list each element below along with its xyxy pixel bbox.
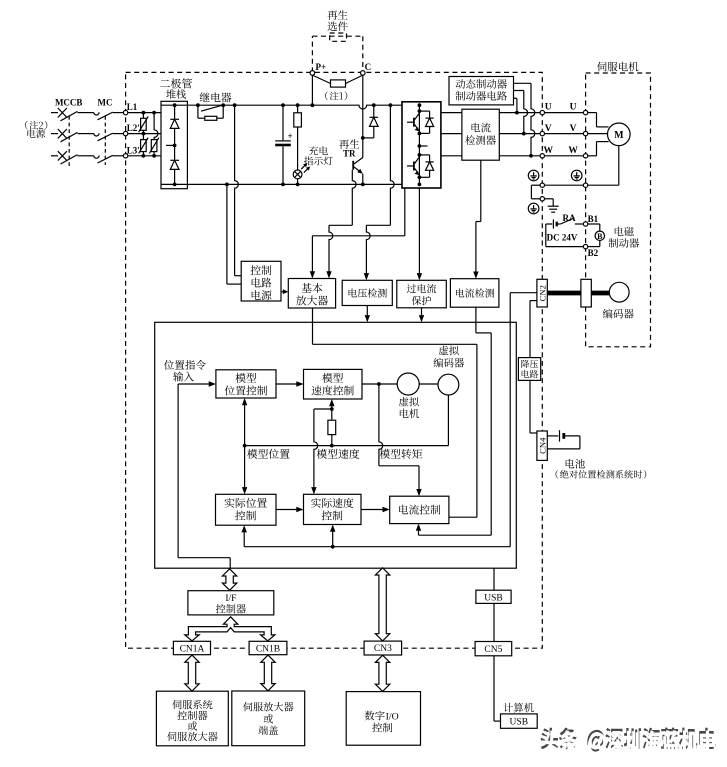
node L1-R1: [142, 111, 146, 115]
mechanical link MCCB (dashed): [68, 116, 70, 166]
connector CN1B: [249, 641, 287, 654]
wire CN5 to computer USB: [493, 656, 495, 721]
wire current detector to current detection: [480, 160, 482, 221]
node L3-R2: [142, 154, 146, 158]
diode stack internal bus top: [161, 104, 187, 106]
terminal W (motor): [583, 154, 587, 158]
arrow overcurrent protection output: [421, 308, 423, 321]
breaker MCCB pole 2: [58, 129, 67, 138]
battery BAT (absolute position): [547, 435, 558, 437]
node module leg: [418, 103, 422, 107]
node DS1 bottom: [296, 183, 300, 187]
arrow model pos to model speed: [276, 383, 302, 385]
double arrow CN1A to servo system controller: [185, 655, 199, 691]
svg-text:USB: USB: [484, 593, 502, 603]
svg-text:CN4: CN4: [537, 437, 547, 454]
label 再生选件: [327, 10, 347, 20]
module phase stub: [419, 145, 427, 147]
wire DS1 to bus N: [297, 179, 299, 185]
wire model position feedback: [447, 395, 449, 446]
wire W to terminal: [499, 155, 540, 157]
arrow voltage detection output: [366, 306, 368, 321]
svg-text:B: B: [597, 232, 603, 241]
capacitor C1 (electrolytic): [282, 105, 284, 141]
IGBT Q1 upper with diode: [418, 111, 420, 113]
svg-text:U: U: [570, 103, 577, 113]
node C1 bottom: [281, 183, 285, 187]
wire brake to U: [514, 97, 517, 99]
contactor MC pole 3: [94, 156, 99, 159]
label 充电指示灯: [309, 146, 328, 155]
wire phase U output: [441, 112, 462, 114]
svg-text:M: M: [614, 130, 624, 141]
node L3-R3: [152, 154, 156, 158]
node model speed branch: [330, 407, 334, 411]
terminal L2: [123, 131, 127, 135]
model position control 模型位置控制: [216, 370, 276, 398]
svg-text:U: U: [545, 103, 552, 113]
arrow up into model position control: [244, 400, 246, 446]
interface USB (amp): [476, 590, 511, 603]
wire MCCB-MC phase 2: [78, 133, 94, 135]
node L2-R1R2: [142, 132, 146, 136]
terminal V (amp): [540, 131, 544, 135]
wire U to terminal: [499, 112, 540, 114]
node torque tap: [377, 382, 381, 386]
current control 电流控制: [390, 496, 449, 523]
rectifier diode stack U1: [161, 101, 187, 188]
I/F controller: [188, 591, 274, 615]
terminal C: [361, 71, 366, 76]
svg-text:CN3: CN3: [374, 644, 392, 654]
wire DC bus N (bottom): [187, 183, 419, 185]
diode D2: [170, 159, 179, 161]
actual position control 实际位置控制: [216, 494, 277, 525]
svg-text:C: C: [365, 62, 372, 72]
wire model torque feedback: [379, 384, 383, 466]
label 伺服电机: [597, 62, 638, 72]
switch RA contact: [561, 218, 575, 224]
terminal U (amp): [540, 110, 544, 114]
wire control to USB: [493, 568, 495, 590]
label 编码器: [603, 309, 634, 319]
wire current control to base amplifier: [449, 516, 477, 518]
svg-text:DC 24V: DC 24V: [547, 232, 578, 242]
label 位置指令输入: [164, 360, 206, 370]
wire L2 to diode stack: [128, 133, 161, 135]
wire model speed to virtual motor: [362, 383, 397, 385]
wire model speed feedback: [314, 408, 332, 410]
arrowhead into base amplifier right: [328, 271, 330, 277]
arrow down into actual position control: [244, 446, 246, 493]
diode stack center leg: [174, 105, 176, 184]
virtual motor 虚拟电机: [397, 373, 419, 395]
svg-text:I/F: I/F: [225, 594, 236, 604]
wire PE to earth terminal: [531, 184, 540, 186]
node U tap: [515, 111, 519, 115]
model speed control 模型速度控制: [304, 369, 363, 399]
wire USB to CN5: [493, 603, 495, 641]
lamp DS1 emission arrows: [301, 164, 306, 169]
wire position command from I/F: [177, 384, 179, 558]
svg-text:I/O: I/O: [386, 712, 399, 723]
terminal L3: [123, 154, 127, 158]
wire current detection to current control (bottom): [475, 307, 477, 333]
wire V to terminal: [499, 133, 540, 135]
wire bus taps to control power: [225, 183, 229, 187]
node speed feedback tap: [331, 545, 335, 549]
connector CN5: [475, 642, 512, 656]
node module leg: [418, 183, 422, 187]
regenerative option dashed box: [312, 33, 362, 72]
svg-text:L1: L1: [127, 102, 138, 112]
terminal PE (motor): [583, 183, 587, 187]
node relay left: [196, 103, 200, 107]
actual speed control 实际速度控制: [304, 494, 362, 524]
arrow control power to base amp: [281, 291, 287, 293]
wire DC bus P (top), dips under C leg: [187, 105, 419, 109]
terminal L1: [123, 110, 127, 114]
node C1 top: [281, 103, 285, 107]
node W tap: [529, 154, 533, 158]
node stack bottom: [173, 183, 177, 187]
terminal P+: [310, 71, 315, 76]
wire L1 to diode stack: [128, 112, 161, 114]
wire encoder feedback CN2 to control: [509, 293, 511, 547]
arrow speed fb into model speed control: [331, 401, 333, 409]
arrow into model position control: [178, 383, 214, 385]
label 二极管堆栈: [160, 78, 192, 88]
wire phase V output: [441, 133, 462, 135]
encoder connector (motor side): [581, 279, 591, 307]
wire TR base to base amplifier: [352, 170, 356, 225]
varistor R2 (L2-L3): [142, 134, 144, 140]
wire module to base amp (left arrow): [404, 188, 406, 236]
label 电磁制动器: [615, 227, 634, 237]
wire CN2 signal: [510, 292, 537, 294]
relay K1 contact: [201, 105, 222, 111]
terminal W (amp): [540, 154, 544, 158]
module center leg: [418, 105, 420, 184]
svg-text:P+: P+: [316, 62, 327, 72]
label 计算机: [503, 703, 533, 713]
node V tap: [522, 132, 526, 136]
wire brake to V: [514, 90, 524, 92]
arrow actual pos to actual speed: [276, 509, 302, 511]
svg-text:B2: B2: [588, 248, 599, 258]
node TR collector: [361, 136, 365, 140]
transistor TR (regenerative): [362, 138, 364, 158]
wire MC-terminal phase 2: [113, 133, 124, 135]
svg-text:CN1B: CN1B: [256, 644, 280, 654]
resistor R5 (regenerative, note1): [313, 76, 330, 84]
svg-text:CN5: CN5: [484, 645, 502, 655]
motor M: [608, 123, 631, 146]
wire CN2 to step-down: [530, 300, 537, 302]
label 模型位置: [247, 449, 289, 459]
svg-text:CN2: CN2: [537, 285, 547, 301]
svg-text:MCCB: MCCB: [55, 97, 83, 107]
svg-text:CN1A: CN1A: [180, 644, 205, 654]
node model position branch: [243, 444, 247, 448]
earth ground: [545, 198, 554, 200]
resistor R6 (model): [331, 409, 333, 420]
node TR emitter on bus: [361, 183, 365, 187]
servo system controller box 伺服系统控制器或伺服放大器: [156, 691, 228, 746]
control power supply 控制电路电源: [241, 261, 281, 301]
watermark 头条 @深圳海蓝机电: [541, 728, 717, 755]
svg-text:L2′: L2′: [127, 123, 140, 133]
breaker MCCB pole 1: [58, 108, 67, 117]
wire MC-terminal phase 1: [113, 112, 124, 114]
resistor R4 (charge): [297, 105, 299, 113]
node P+ on bus: [311, 103, 315, 107]
double arrow control to I/F: [222, 569, 236, 591]
wire C leg: [362, 75, 364, 138]
wire L3 to diode stack: [128, 155, 161, 157]
terminal earth: [540, 197, 544, 201]
svg-text:V: V: [570, 124, 577, 134]
node L1-R3: [152, 111, 156, 115]
base amplifier 基本放大器: [288, 279, 335, 309]
svg-text:V: V: [545, 124, 552, 134]
wire input phase 1 lead-in: [51, 112, 58, 114]
wire virtual motor to virtual encoder: [419, 383, 438, 385]
wire MC-terminal phase 3: [113, 155, 124, 157]
svg-text:L3′: L3′: [127, 145, 140, 155]
forked double arrow I/F to CN1A CN1B: [185, 617, 275, 641]
wire V amp-motor: [545, 133, 584, 135]
svg-text:MC: MC: [98, 97, 113, 107]
encoder: [609, 282, 629, 302]
wire V into motor: [588, 133, 608, 135]
wire module to overcurrent protection: [418, 188, 420, 279]
control block frame: [155, 322, 517, 568]
wire W into motor: [588, 155, 597, 157]
label 模型转矩: [380, 449, 423, 459]
wire battery loop: [545, 224, 547, 247]
varistor R1 (L1-L2): [142, 113, 144, 119]
wire W amp-motor: [545, 155, 584, 157]
svg-text:W: W: [543, 146, 553, 156]
overcurrent protection 过电流保护: [397, 280, 447, 308]
lamp DS1 charge indicator: [293, 170, 302, 179]
terminal V (motor): [583, 131, 587, 135]
wire MCCB-MC phase 3: [78, 155, 94, 157]
brake coil B: [588, 223, 600, 225]
mechanical link MC (dashed): [104, 116, 106, 165]
node R4 top: [296, 103, 300, 107]
terminal B1: [583, 222, 587, 226]
battery DC 24V: [546, 223, 552, 225]
svg-text:B1: B1: [588, 214, 599, 224]
node resistor to fb line: [330, 444, 334, 448]
label （注2）电源: [25, 121, 47, 130]
dynamic brake circuit box 动态制动器制动器电路: [449, 77, 514, 105]
connector CN4: [537, 431, 547, 460]
encoder cable (thick): [547, 291, 581, 296]
node module leg: [418, 132, 422, 136]
current detector 电流检测器: [462, 109, 499, 160]
voltage detection 电压检测: [342, 280, 392, 305]
terminal U (motor): [583, 110, 587, 114]
connector CN1A: [173, 641, 210, 654]
IGBT Q2 lower with diode: [418, 155, 420, 157]
contactor MC pole 2: [94, 133, 99, 136]
arrow feedback into actual speed control: [332, 526, 334, 546]
node module leg: [418, 153, 422, 157]
svg-text:W: W: [568, 146, 578, 156]
wire input phase 2 lead-in: [51, 133, 58, 135]
relay K1 coil: [197, 105, 199, 118]
current detection 电流检测: [450, 279, 499, 308]
connector CN2: [537, 279, 547, 307]
diode stack internal bus bottom: [161, 183, 187, 185]
wire U into motor: [588, 112, 597, 114]
digital IO box 数字I/O控制: [346, 692, 420, 746]
wire D3 to TR collector: [363, 137, 374, 139]
diode D1: [170, 118, 179, 120]
wire U amp-motor: [545, 112, 584, 114]
arrow actual speed to current control: [361, 509, 388, 511]
label 模型速度: [317, 449, 360, 459]
servo amplifier box 伺服放大器或端盖: [232, 691, 305, 746]
wire input phase 3 lead-in: [51, 155, 58, 157]
double arrow CN1B to servo amplifier: [261, 655, 275, 691]
virtual encoder 虚拟编码器: [438, 374, 459, 395]
PE symbol (motor): [571, 170, 582, 181]
double arrow CN3 to digital IO: [375, 655, 389, 691]
wire brake to W: [514, 82, 532, 84]
wire bus P to voltage detection: [389, 103, 393, 107]
node D3 top: [372, 103, 376, 107]
node module leg: [418, 175, 422, 179]
connector CN3: [364, 641, 402, 655]
svg-text:USB: USB: [510, 718, 528, 728]
label 再生TR: [339, 139, 359, 149]
node module leg: [418, 109, 422, 113]
node relay right: [221, 103, 225, 107]
label （注1）: [325, 91, 347, 100]
wire PE amp-motor: [545, 184, 584, 186]
step-down circuit 降压电路: [518, 358, 540, 381]
wire MCCB-MC phase 1: [78, 112, 94, 114]
label 继电器: [200, 92, 232, 102]
label （绝对位置检测系统时）: [556, 470, 647, 479]
svg-text:TR: TR: [343, 149, 356, 159]
svg-text:+: +: [288, 131, 293, 141]
wire step-down to CN4: [529, 380, 531, 433]
wire motor frame to PE: [618, 146, 620, 186]
wire phase W output: [441, 155, 462, 157]
interface USB (computer): [501, 714, 538, 728]
servo motor dashed enclosure: [586, 73, 651, 347]
label 电池: [566, 459, 585, 469]
contactor MC pole 1: [94, 112, 99, 115]
node stack mid: [173, 144, 177, 148]
node stack top: [173, 103, 177, 107]
PE symbol (amp): [528, 170, 539, 181]
power module U2 (IGBT bridge): [402, 102, 441, 188]
wire P+ leg: [311, 75, 313, 105]
node module leg: [418, 144, 422, 148]
diode D3 (regen): [373, 105, 375, 117]
PE symbol (lower): [528, 203, 539, 214]
servo amplifier dashed enclosure: [126, 72, 543, 648]
varistor R3 (L1-L3) with hop over L2: [154, 113, 158, 140]
terminal PE (amp): [540, 183, 544, 187]
terminal B2: [583, 244, 587, 248]
breaker MCCB pole 3: [58, 151, 67, 160]
double arrow control to CN3: [375, 568, 389, 641]
